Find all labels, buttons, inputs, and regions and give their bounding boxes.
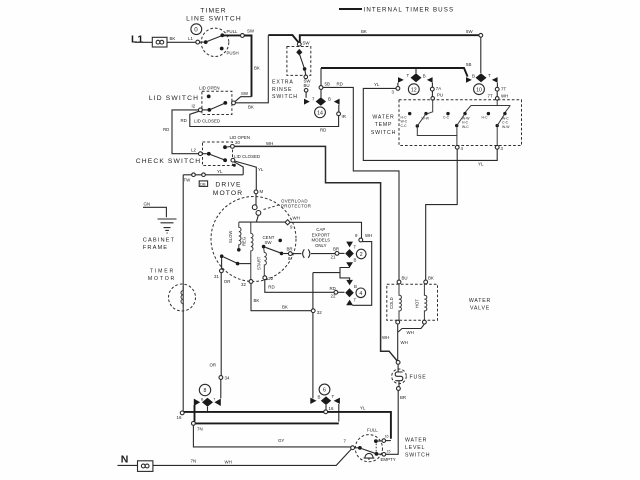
svg-text:YL: YL [360,406,366,411]
timer cam 2 contact [345,242,356,268]
svg-text:T: T [213,398,215,402]
svg-text:6: 6 [323,388,326,394]
timer cam 10 contact [466,73,498,83]
svg-text:RD: RD [181,118,187,123]
svg-text:HOT: HOT [415,299,420,308]
wire 5W down to cam 10 [480,37,482,73]
node 7T box pin [495,97,499,101]
overload protector [252,194,280,222]
wire WH motor to cam2 [290,222,362,238]
svg-text:WH: WH [225,460,232,465]
wire YL net [363,88,497,160]
wire cam2-cam4 bracket [340,268,350,281]
svg-text:BK: BK [254,66,260,71]
lid switch box [202,91,232,114]
node fuse bottom [397,387,401,391]
svg-text:WH: WH [266,141,273,146]
legend INTERNAL TIMER BUSS [339,6,454,13]
svg-text:FUSE: FUSE [410,375,427,381]
node 22b [334,290,338,294]
svg-text:SWITCH: SWITCH [405,453,430,459]
connector DB [199,181,207,187]
node WH motor [285,216,300,230]
svg-text:16: 16 [329,406,334,411]
wire cam12 left terminal [397,83,399,87]
svg-text:WATER: WATER [372,115,394,121]
svg-text:BK: BK [282,305,288,310]
water temp switch section1 [401,100,458,135]
wire WH check switch to fuse [234,146,397,361]
svg-text:T: T [407,73,410,78]
svg-text:31: 31 [214,274,219,279]
svg-text:PUSH: PUSH [227,51,239,56]
wire 7T feed inside box [465,100,510,112]
svg-text:WH: WH [382,335,389,340]
svg-text:SW: SW [241,91,249,96]
node 16b [324,410,328,414]
ground cabinet frame [158,219,177,233]
svg-text:9: 9 [355,233,358,238]
water temp switch title [371,115,396,137]
svg-text:WH: WH [407,330,414,335]
wire cam6 right to bus4 [338,404,340,422]
svg-text:W-C: W-C [462,125,469,129]
svg-text:34: 34 [225,376,230,381]
cabinet frame label [143,237,175,251]
svg-text:DRIVE: DRIVE [215,182,241,189]
node 4 [455,145,459,149]
svg-text:GN: GN [144,202,151,207]
check switch contacts [199,145,236,167]
svg-text:YL: YL [374,82,380,87]
node 3 [396,87,400,91]
svg-text:7: 7 [344,439,347,444]
wire 5B to cam14 diamond [320,89,322,97]
timer cam 14 [315,107,326,118]
svg-text:7: 7 [312,97,315,102]
svg-text:SW: SW [265,240,273,245]
svg-text:BU: BU [402,276,408,281]
svg-text:C-C: C-C [443,115,450,119]
svg-text:MODELS: MODELS [312,238,331,243]
svg-text:WH: WH [401,340,408,345]
svg-text:B: B [472,74,475,79]
connector 7N [192,422,196,426]
wire PULL contact to SW [223,34,240,36]
node valve cold out [396,320,400,324]
winding SLOW [228,222,241,252]
wire BK 32 to junction [251,283,311,310]
svg-text:N: N [121,454,129,466]
timer cam 10 [474,84,485,95]
wire cam12 right to 7A [431,83,433,88]
svg-text:8: 8 [288,256,291,261]
svg-text:SWITCH: SWITCH [272,94,298,100]
svg-text:0: 0 [194,27,199,34]
extra rinse switch box [287,47,311,76]
svg-text:8: 8 [204,388,207,394]
svg-text:TW: TW [184,178,192,183]
drive motor boundary [211,197,296,282]
water level switch contacts [351,439,386,456]
overload protector label [281,198,311,208]
water temp switch section3 [482,112,511,146]
svg-text:VALVE: VALVE [470,306,490,312]
svg-text:EXTRA: EXTRA [272,80,294,86]
winding REG [242,222,254,280]
wire BK lid switch to top bus [235,35,268,102]
svg-text:32: 32 [241,282,246,287]
svg-text:LID OPEN: LID OPEN [199,86,220,91]
svg-text:OR: OR [224,279,231,284]
timer motor TM [169,284,196,311]
connector plug L1 [152,37,167,47]
timer bus 4 [195,422,339,424]
connector 32b [311,309,315,313]
wire cam8 left to bus4 [194,405,196,422]
svg-text:21: 21 [331,255,336,260]
svg-text:16: 16 [385,435,389,439]
water level switch title [405,438,430,459]
svg-text:SW: SW [247,29,255,34]
node 16 timer [180,411,184,415]
timer cam 2 [356,249,366,259]
svg-text:MOTOR: MOTOR [148,276,176,282]
svg-text:22: 22 [331,294,336,299]
node 8 BR [288,252,292,256]
wire timer bus 2 [321,68,468,77]
centrifugal switch [262,239,289,256]
timer cam 6 [319,384,330,395]
svg-text:LID CLOSED: LID CLOSED [234,154,260,159]
svg-text:CHECK SWITCH: CHECK SWITCH [136,158,201,165]
wire bracket tap [313,272,340,274]
label CENT SW [263,235,275,245]
wire valve outputs merge [398,324,425,360]
svg-text:3: 3 [501,146,504,151]
timer bus 3 [184,412,391,439]
wire cam2 bracket right [352,242,371,306]
svg-text:SWITCH: SWITCH [371,130,396,136]
svg-text:LID CLOSED: LID CLOSED [194,119,220,124]
svg-text:WATER: WATER [405,438,427,444]
svg-text:TEMP: TEMP [375,122,393,128]
svg-text:T: T [354,298,357,303]
svg-text:L1: L1 [131,34,143,46]
svg-text:INTERNAL TIMER BUSS: INTERNAL TIMER BUSS [364,6,455,13]
svg-text:EXPORT: EXPORT [312,232,330,237]
node 7A box pin [431,97,435,101]
svg-text:PULL: PULL [227,29,239,34]
svg-text:L1: L1 [188,36,193,41]
svg-text:BK: BK [248,105,254,110]
wire cam6 diamond to bus [325,405,327,410]
label SW BU [304,79,312,89]
svg-text:OR: OR [210,363,217,368]
water level switch boundary [355,435,382,462]
svg-text:T: T [332,394,335,399]
svg-text:22: 22 [268,276,273,281]
svg-text:32: 32 [317,310,322,315]
wire stator feed [239,221,285,223]
timer cam 6 contact [310,394,340,405]
svg-text:12: 12 [411,87,417,93]
capacitor C1 [292,249,335,258]
wire GY drop [193,425,350,447]
check switch box [203,142,233,166]
node extra rinse out [304,89,308,93]
svg-text:IR: IR [342,114,346,119]
svg-text:L2: L2 [191,148,196,153]
svg-text:3: 3 [392,90,395,95]
timer cam 14 contact [304,97,340,106]
node 9 [359,238,363,242]
svg-text:CAP: CAP [316,227,325,232]
svg-text:5B: 5B [325,82,330,87]
winding START [256,248,266,275]
node 22 [263,276,267,280]
svg-text:TIMER: TIMER [200,8,227,15]
svg-text:BK: BK [254,298,260,303]
svg-text:CABINET: CABINET [143,237,175,243]
svg-text:BK: BK [428,276,434,281]
node valve hot out [423,320,427,324]
connector plug N [138,461,153,472]
wire RD to cold valve [323,87,399,280]
timer line switch title [186,8,242,23]
wire 7T to box [496,91,498,96]
node 31 [220,269,224,273]
svg-text:7N: 7N [197,427,203,432]
node 32 [249,280,253,284]
wire TW down to timer motor [182,175,184,411]
node 3b [495,145,499,149]
svg-text:5W: 5W [466,29,473,34]
svg-text:LID SWITCH: LID SWITCH [149,95,199,102]
node SW [241,34,245,38]
svg-text:4: 4 [359,291,362,297]
svg-text:5B: 5B [466,62,471,67]
node fuse top [396,361,400,365]
timer line switch SW1 [196,28,229,56]
svg-text:B: B [354,284,357,289]
svg-text:PU: PU [437,93,443,98]
wire 21 to diamond2 [339,252,345,254]
svg-text:FULL: FULL [367,428,378,433]
svg-text:I2: I2 [192,104,196,109]
wire cam10 right to 7T [496,83,498,88]
wire top bus BK right [300,35,479,43]
svg-text:9: 9 [290,225,293,230]
wire bus2 drop to 5B node [320,68,322,86]
svg-text:GY: GY [278,438,284,443]
wire RD lid I2 to check L2 [172,110,199,154]
svg-text:LEVEL: LEVEL [405,445,425,451]
wire full 16 riser [386,440,391,442]
svg-text:WH: WH [293,216,300,221]
svg-text:LINE SWITCH: LINE SWITCH [186,16,242,23]
svg-text:ONLY: ONLY [315,243,327,248]
svg-text:10: 10 [476,87,482,93]
svg-text:BK: BK [361,29,367,34]
svg-text:BR: BR [333,247,339,252]
wire cam14 to IR [338,105,340,112]
wire YL check to TW line [234,162,243,175]
wire top bus BK [268,35,299,43]
svg-text:14: 14 [317,111,323,117]
svg-text:16: 16 [177,415,182,420]
wire RD from IR to lid switch [190,111,339,126]
svg-text:REG: REG [242,237,247,246]
svg-text:RINSE: RINSE [272,87,292,93]
wire N lead [118,464,138,466]
node M [254,190,258,194]
timer cam 12 [408,84,419,95]
connector 34 [219,376,223,380]
lid switch contacts [199,95,236,112]
wire to cam 14 [305,92,307,98]
timer cam 0 [191,24,202,35]
svg-text:BK: BK [170,36,176,41]
wire TW horizontal [183,174,243,176]
water valve title [469,298,491,312]
svg-text:COLD: COLD [389,297,394,309]
wire OR 31 to cam8 [220,273,222,376]
svg-text:SLOW: SLOW [228,231,233,243]
svg-text:RD: RD [337,82,343,87]
wire RD 22 to cam4 [265,280,334,293]
connector TW inline [192,173,206,177]
svg-text:B: B [201,398,204,402]
solenoid COLD [389,284,402,320]
wire 34 to cam8 triangle [220,379,222,398]
svg-text:RD: RD [163,127,169,132]
svg-text:T: T [354,245,357,250]
svg-text:30: 30 [235,140,240,145]
timer cam 8 [199,384,210,395]
pressure bell [364,453,375,460]
timer cam 4 contact [345,280,357,305]
svg-text:MOTOR: MOTOR [213,190,244,197]
svg-text:RD: RD [268,285,274,290]
svg-text:RD: RD [320,128,326,133]
svg-text:WH: WH [501,94,508,99]
svg-text:4: 4 [461,146,464,151]
svg-text:15: 15 [387,450,391,454]
svg-text:7T: 7T [501,87,506,92]
svg-text:7T: 7T [488,94,493,99]
svg-text:7N: 7N [191,459,197,464]
svg-text:BR: BR [400,395,406,400]
solenoid HOT [415,284,427,320]
node IR [337,112,341,116]
svg-text:START: START [256,256,261,270]
water temp switch section2 [443,112,470,146]
wire N bus [153,449,351,465]
svg-text:PROTECTOR: PROTECTOR [281,203,311,208]
svg-text:B: B [423,74,426,79]
wire SW down to lid switch [244,36,251,97]
extra rinse switch title [272,80,298,101]
svg-text:T: T [488,73,491,78]
wire BR fuse to empty [386,390,398,454]
extra rinse switch SW terminal [297,42,301,46]
svg-text:WATER: WATER [469,298,491,304]
extra rinse switch contact [296,49,307,79]
wire lid switch SW riser [235,97,252,102]
svg-text:YL: YL [478,162,484,167]
svg-text:B: B [318,395,321,400]
node 21 [335,252,339,256]
wire water temp 4 to hot valve [426,149,458,280]
node 5B [319,86,323,90]
svg-text:YL: YL [217,169,223,174]
wire plug to switch [167,41,196,43]
svg-text:B: B [328,97,331,102]
svg-text:WH: WH [365,233,372,238]
wire L1 lead [135,41,153,43]
node BU [397,280,401,284]
timer cam 8 contact [194,398,221,407]
wire cam8 diamond to bus [207,407,209,411]
water valve box [387,284,438,320]
water temp switch box [399,100,522,146]
svg-text:7A: 7A [436,86,441,91]
rotor switch [220,254,251,268]
svg-text:TIMER: TIMER [150,269,175,275]
node 5W [479,33,483,37]
svg-text:YL: YL [258,167,264,172]
svg-text:DB: DB [200,182,206,186]
svg-text:SW: SW [303,41,311,46]
svg-text:B: B [354,258,357,263]
node 7A [430,87,434,91]
svg-text:M: M [260,189,264,194]
node BK valve [424,280,428,284]
svg-text:H-C: H-C [482,115,489,119]
svg-text:BR: BR [287,247,293,252]
node 7T [495,87,499,91]
wire 22b to diamond4 [338,291,345,293]
wire junction vertical to cam6 [312,273,314,399]
fuse F1 [392,364,407,386]
wire 7A to box [431,91,433,97]
ground GN wire [143,207,166,217]
svg-text:C-C: C-C [401,124,408,128]
svg-text:BU: BU [304,83,310,88]
timer motor title [148,269,176,283]
svg-text:FRAME: FRAME [143,245,168,251]
wire YL check to M [235,161,257,190]
drive motor title [213,182,244,198]
cap export label [312,227,331,248]
svg-text:EMPTY: EMPTY [381,457,396,462]
svg-text:W-W: W-W [502,125,510,129]
timer cam 4 [356,288,366,298]
timer cam 12 contact [398,68,433,83]
svg-text:2: 2 [360,252,363,258]
